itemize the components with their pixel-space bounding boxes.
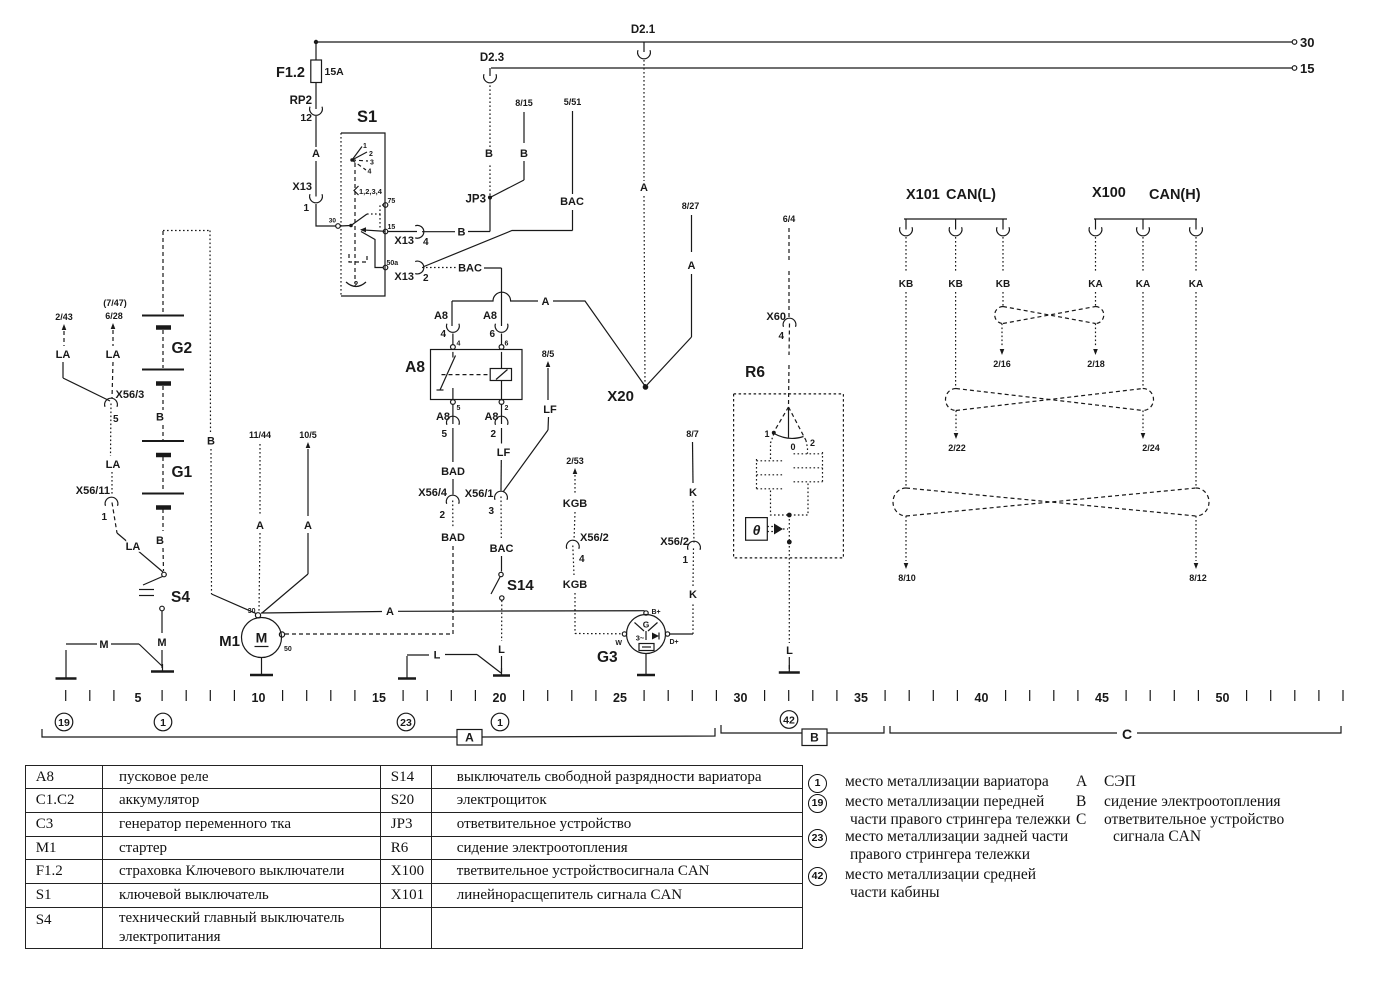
wire A from 8/27 to X20 [646, 201, 699, 386]
svg-text:20: 20 [493, 691, 507, 705]
section bracket A [42, 728, 715, 745]
svg-text:1: 1 [764, 429, 769, 439]
svg-text:KA: KA [1189, 279, 1203, 290]
node marker 1 (metallization point, middle) [491, 713, 509, 731]
svg-text:LA: LA [56, 349, 71, 361]
wire BAC from X56/1-3 to switch S14 [490, 497, 514, 572]
svg-text:A: A [688, 260, 696, 272]
svg-text:D2.3: D2.3 [480, 52, 504, 64]
svg-text:B: B [520, 148, 528, 160]
svg-text:1: 1 [497, 717, 503, 729]
wire KA X100-A to 2/18 (twisted pair) [1087, 237, 1105, 369]
svg-text:(7/47): (7/47) [103, 298, 127, 308]
connector A8 pin 6 (top right) [483, 310, 508, 345]
connector RP2 pin 12 [290, 95, 323, 124]
svg-text:A: A [640, 182, 648, 194]
svg-text:2/53: 2/53 [566, 456, 584, 466]
connector X13 pin 4 [388, 225, 429, 248]
svg-text:8/27: 8/27 [682, 201, 700, 211]
svg-text:8/12: 8/12 [1189, 573, 1207, 583]
svg-text:X13: X13 [292, 181, 312, 193]
svg-text:2: 2 [423, 273, 429, 284]
node X20 [607, 384, 648, 405]
section bracket C [890, 726, 1341, 742]
wire B between G2 and G1 [156, 386, 164, 440]
svg-text:A8: A8 [436, 411, 450, 423]
svg-text:2/22: 2/22 [948, 443, 966, 453]
svg-text:BAD: BAD [441, 466, 465, 478]
wire L from R6 to ground [786, 558, 793, 669]
svg-text:B+: B+ [652, 609, 661, 616]
wire LF from A8-2 to X56/1-3 [497, 428, 511, 491]
wire L from S14 to ground [498, 601, 505, 673]
connector X60 pin 4 [766, 311, 795, 342]
node marker 19 (metallization point) [55, 713, 73, 731]
node JP3 junction [466, 194, 493, 206]
wire M and ground (far left) [56, 639, 163, 679]
wire from 6/4 to X60-4 [783, 214, 796, 317]
svg-text:10/5: 10/5 [299, 430, 317, 440]
svg-text:LA: LA [126, 541, 141, 553]
svg-text:X20: X20 [607, 388, 634, 405]
svg-text:12: 12 [300, 112, 312, 124]
svg-text:X101: X101 [906, 187, 940, 203]
battery G2 [142, 231, 192, 384]
svg-text:1: 1 [303, 203, 309, 214]
wire KB X101-C to 2/16 (twisted pair) [993, 237, 1011, 369]
wire A from relay A8 to X20 with hop over BAC wire [452, 292, 645, 386]
svg-text:BAC: BAC [490, 543, 514, 555]
wire from X60-4 into R6 [789, 324, 790, 407]
svg-text:G3: G3 [597, 649, 618, 666]
wire B from battery to starter M1 [163, 231, 256, 614]
svg-text:45: 45 [1095, 691, 1109, 705]
svg-text:30: 30 [248, 608, 256, 615]
wire BAC from 5/51 to X13-2 [424, 97, 584, 267]
svg-text:75: 75 [388, 198, 396, 205]
wire LA from 2/43 to X56/3-5 [55, 312, 110, 401]
svg-text:S4: S4 [171, 589, 190, 606]
connector A8 pin 4 (top left) [434, 301, 459, 345]
svg-text:KA: KA [1088, 279, 1102, 290]
main battery switch S4 [139, 572, 190, 611]
ignition switch S1 [329, 108, 399, 296]
wire KGB from 2/53 to X56/2-4 [563, 456, 588, 541]
svg-text:X56/3: X56/3 [116, 389, 145, 401]
svg-text:5: 5 [457, 405, 461, 412]
svg-text:X56/1: X56/1 [465, 488, 494, 500]
svg-text:G2: G2 [172, 340, 193, 357]
svg-text:15A: 15A [325, 66, 345, 78]
svg-text:B: B [156, 412, 164, 424]
svg-text:B: B [810, 731, 819, 745]
svg-text:A8: A8 [434, 310, 448, 322]
svg-text:1,2,3,4: 1,2,3,4 [359, 187, 383, 196]
svg-text:X60: X60 [766, 311, 786, 323]
svg-text:8/7: 8/7 [686, 429, 699, 439]
connector X101 CAN(L) [900, 187, 1010, 236]
connector X13 pin 2 [394, 261, 429, 284]
twisted pair symbol (middle, 2/22-2/24) [946, 389, 1154, 411]
svg-text:2: 2 [810, 438, 815, 448]
svg-text:X100: X100 [1092, 185, 1126, 201]
svg-text:A8: A8 [483, 310, 497, 322]
svg-text:30: 30 [329, 218, 337, 225]
svg-text:2: 2 [490, 429, 496, 440]
svg-text:50a: 50a [387, 260, 399, 267]
svg-text:KGB: KGB [563, 579, 588, 591]
svg-text:θ: θ [753, 522, 761, 538]
ground below S4 [151, 664, 174, 672]
battery G1 [142, 441, 193, 508]
svg-text:10: 10 [252, 691, 266, 705]
wire KB X101-B to 2/22 (twisted pair) [948, 237, 966, 453]
wire A from D2.1 down to X20 [640, 60, 648, 385]
generator G3 [597, 609, 679, 666]
svg-text:KB: KB [899, 279, 913, 290]
svg-text:6: 6 [505, 341, 509, 348]
svg-text:LF: LF [497, 447, 511, 459]
svg-text:A: A [256, 520, 264, 532]
node marker 1 (metallization point, left) [154, 713, 172, 731]
section bracket B [721, 725, 884, 746]
wire BAD from A8-5 to X56/4-2 [441, 428, 465, 495]
svg-text:G: G [643, 620, 650, 630]
connector A8 pin 5 (bottom left) [436, 404, 459, 440]
starter motor M1 [219, 608, 292, 658]
svg-text:C: C [1122, 726, 1132, 742]
connector X56/3 pin 5 [105, 389, 145, 425]
svg-text:K: K [689, 487, 697, 499]
wire K from G3 D+ to X56/2-1 [670, 547, 697, 635]
svg-text:25: 25 [613, 691, 627, 705]
coordinate ruler scale [66, 690, 1343, 705]
wire BAD from X56/4-2 to starter M1 terminal 50 [285, 501, 465, 635]
svg-text:A8: A8 [405, 359, 425, 376]
svg-text:M: M [99, 639, 108, 651]
svg-text:BAC: BAC [560, 196, 584, 208]
ground below M1 [250, 658, 273, 676]
wire B from X13-4 to JP3 [422, 200, 490, 239]
wire B from G1 to S4 [156, 509, 164, 571]
wire A from 10/5 to M1-30 [262, 430, 317, 613]
svg-text:X13: X13 [394, 235, 414, 247]
svg-text:50: 50 [1216, 691, 1230, 705]
svg-text:L: L [786, 645, 793, 657]
svg-text:30: 30 [734, 691, 748, 705]
svg-text:2/18: 2/18 [1087, 359, 1105, 369]
svg-text:1: 1 [682, 555, 688, 566]
wire KGB from X56/2-4 to G3 terminal W [563, 546, 622, 634]
connector A8 pin 2 (bottom right) [484, 404, 507, 440]
svg-text:19: 19 [58, 717, 70, 729]
wire M from S4 to ground [157, 611, 166, 668]
svg-text:BAC: BAC [458, 263, 482, 275]
svg-text:0: 0 [790, 442, 795, 452]
connector X56/2 pin 1 [660, 536, 700, 566]
svg-text:A: A [304, 520, 312, 532]
svg-text:23: 23 [400, 717, 412, 729]
svg-text:4: 4 [423, 237, 429, 248]
svg-text:X56/11: X56/11 [76, 485, 110, 497]
svg-text:BAD: BAD [441, 532, 465, 544]
heated seat R6 [734, 364, 844, 558]
svg-text:4: 4 [778, 331, 784, 342]
svg-text:LA: LA [106, 459, 121, 471]
connector X100 CAN(H) [1089, 185, 1202, 236]
svg-text:2: 2 [505, 405, 509, 412]
svg-text:3: 3 [488, 506, 494, 517]
wire K from X56/2-1 to 8/7 [686, 429, 699, 543]
svg-text:1: 1 [160, 717, 166, 729]
svg-text:LF: LF [543, 404, 557, 416]
twisted pair symbol (bottom, 8/10-8/12) [893, 488, 1209, 516]
connector D2.1 [631, 24, 656, 59]
svg-text:F1.2: F1.2 [276, 65, 305, 81]
svg-text:4: 4 [579, 554, 585, 565]
wire KB X101-A to 8/10 (twisted pair) [898, 237, 916, 583]
svg-text:6/4: 6/4 [783, 214, 796, 224]
svg-text:A: A [465, 731, 474, 745]
svg-text:M: M [157, 637, 166, 649]
svg-text:8/10: 8/10 [898, 573, 916, 583]
svg-text:5: 5 [135, 691, 142, 705]
wire A from M1-30 to generator G3 B+ [261, 606, 645, 618]
svg-text:3: 3 [370, 160, 374, 167]
node junction of F1.2 branch on bus 30 [314, 40, 318, 44]
ground below G3 [637, 654, 655, 676]
svg-text:A: A [542, 296, 550, 308]
connector X56/11 pin 1 [76, 485, 118, 523]
svg-text:6/28: 6/28 [105, 311, 123, 321]
svg-text:5: 5 [113, 414, 119, 425]
svg-text:G1: G1 [172, 464, 193, 481]
svg-text:L: L [498, 644, 505, 656]
svg-text:S1: S1 [357, 108, 377, 126]
wire from X13-1 to S1 terminal 30 [316, 204, 336, 226]
wire LA from X56/11-1 to switch S4 [112, 503, 163, 573]
wire bus 15 (second rail) [491, 61, 1314, 76]
svg-text:50: 50 [284, 646, 292, 653]
svg-text:JP3: JP3 [466, 194, 486, 206]
svg-text:KGB: KGB [563, 498, 588, 510]
svg-text:B: B [156, 535, 164, 547]
svg-text:CAN(H): CAN(H) [1149, 187, 1201, 203]
svg-text:X56/2: X56/2 [660, 536, 689, 548]
svg-text:RP2: RP2 [290, 95, 312, 107]
svg-text:X56/2: X56/2 [580, 532, 609, 544]
svg-text:30: 30 [1300, 35, 1314, 50]
ground below R6 [779, 665, 800, 673]
svg-text:4: 4 [457, 341, 461, 348]
svg-text:2/16: 2/16 [993, 359, 1011, 369]
svg-text:A8: A8 [484, 411, 498, 423]
svg-text:4: 4 [440, 329, 446, 340]
svg-text:8/5: 8/5 [542, 349, 555, 359]
twisted pair symbol (small, 2/16-2/18) [995, 307, 1104, 324]
svg-text:R6: R6 [745, 364, 765, 381]
legend table of components [25, 765, 803, 949]
ground below S14 [493, 668, 510, 676]
wire LA from 6/28 (7/47) to X56/3-5 [103, 298, 127, 398]
svg-text:2: 2 [439, 510, 445, 521]
svg-text:KB: KB [996, 279, 1010, 290]
svg-text:2/43: 2/43 [55, 312, 73, 322]
connector X56/1 pin 3 [465, 488, 508, 517]
wire LF from 8/5 to X56/1-3 [503, 349, 557, 492]
wire KA X100-C to 8/12 (twisted pair) [1189, 237, 1207, 583]
svg-text:D+: D+ [670, 639, 679, 646]
svg-text:11/44: 11/44 [249, 430, 271, 440]
svg-text:3~: 3~ [636, 634, 645, 643]
svg-text:KB: KB [948, 279, 962, 290]
connector X56/4 pin 2 [418, 487, 459, 521]
wire bus 30 (top rail) [316, 35, 1314, 50]
svg-text:1: 1 [363, 143, 367, 150]
svg-text:M1: M1 [219, 633, 240, 650]
svg-text:5: 5 [441, 429, 447, 440]
wire B from JP3 up to D2.3 [485, 84, 493, 195]
svg-text:X56/4: X56/4 [418, 487, 448, 499]
wire LA from X56/3-5 to X56/11-1 [106, 404, 121, 497]
svg-text:B: B [458, 227, 466, 239]
svg-text:42: 42 [783, 714, 795, 726]
svg-text:CAN(L): CAN(L) [946, 187, 996, 203]
svg-text:LA: LA [106, 349, 121, 361]
svg-text:40: 40 [975, 691, 989, 705]
connector X56/2 pin 4 [566, 532, 608, 565]
svg-text:15: 15 [372, 691, 386, 705]
svg-text:15: 15 [388, 224, 396, 231]
svg-text:1: 1 [101, 512, 107, 523]
wire A from RP2-12 to X13-1 [312, 116, 320, 197]
svg-text:4: 4 [368, 169, 372, 176]
ground with L wire link (left of S14) [398, 650, 501, 679]
fuse F1.2 15A [276, 43, 344, 109]
svg-text:KA: KA [1136, 279, 1150, 290]
connector D2.3 [480, 52, 504, 83]
svg-text:K: K [689, 589, 697, 601]
svg-text:B: B [485, 148, 493, 160]
svg-text:D2.1: D2.1 [631, 24, 656, 36]
svg-text:2: 2 [369, 151, 373, 158]
switch S14 [491, 572, 534, 600]
svg-text:6: 6 [489, 329, 495, 340]
svg-text:S14: S14 [507, 577, 534, 594]
svg-text:A: A [312, 148, 320, 160]
wire BAC from X13-2 to relay A8 pin 6 [422, 263, 502, 327]
wire B from 8/15 to JP3 [491, 98, 533, 197]
svg-text:15: 15 [1300, 61, 1314, 76]
svg-text:2/24: 2/24 [1142, 443, 1160, 453]
svg-text:A: A [386, 606, 394, 618]
node marker 23 (metallization point) [397, 713, 415, 731]
relay A8 box with pins 4,6,5,2 [405, 341, 522, 413]
svg-text:L: L [434, 650, 441, 662]
svg-text:35: 35 [854, 691, 868, 705]
svg-text:2: 2 [354, 280, 359, 289]
svg-text:8/15: 8/15 [515, 98, 533, 108]
node marker 42 (metallization point) [780, 711, 798, 729]
svg-text:M: M [256, 630, 268, 646]
wire A from 11/44 to M1-30 [249, 430, 271, 611]
connector X13 pin 1 [292, 181, 322, 214]
svg-text:X13: X13 [394, 271, 414, 283]
svg-text:B: B [207, 436, 215, 448]
svg-text:5/51: 5/51 [564, 97, 582, 107]
svg-text:W: W [615, 640, 622, 647]
wire KA X100-B to 2/24 (twisted pair) [1136, 237, 1160, 453]
